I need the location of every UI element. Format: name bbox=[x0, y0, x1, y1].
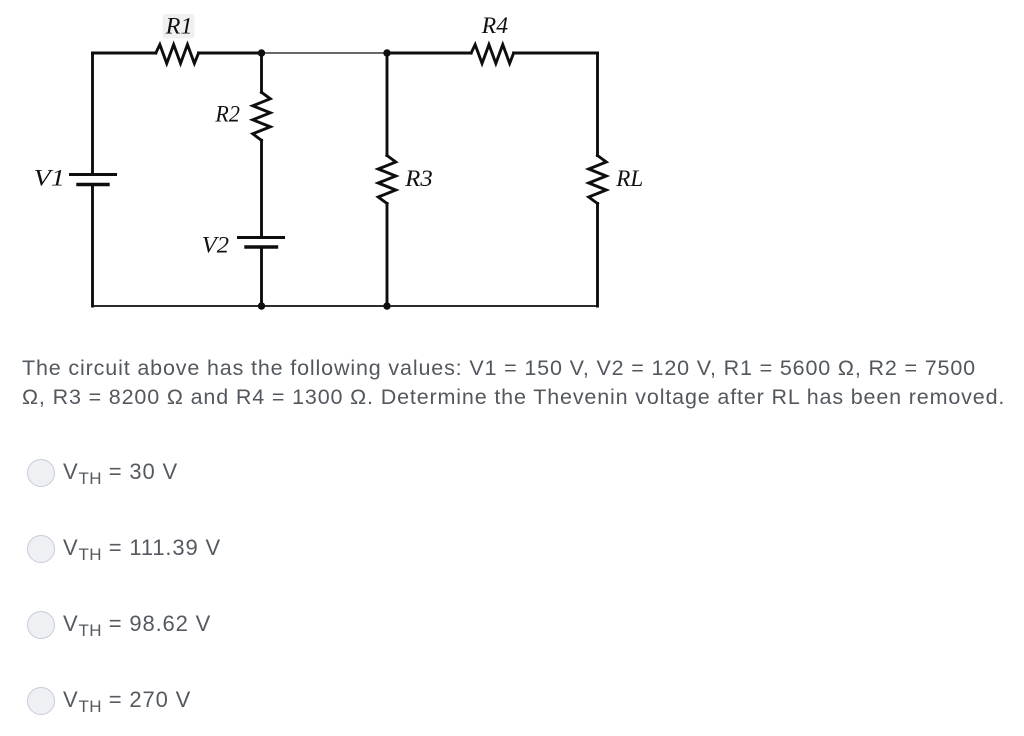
wire R2 to V2 bbox=[260, 140, 263, 236]
wire top-left from V1 rail to R1 bbox=[93, 52, 156, 55]
resistor R1 bbox=[156, 45, 199, 64]
battery V1 short plate bbox=[78, 183, 108, 186]
wire R4 to right rail corner bbox=[514, 52, 598, 55]
svg-text:RL: RL bbox=[615, 166, 643, 192]
wire right rail lower bbox=[596, 204, 599, 307]
wire node B down to R3 bbox=[386, 53, 389, 156]
option 3 bbox=[0, 610, 1, 640]
node B bbox=[383, 49, 390, 56]
svg-text:R2: R2 bbox=[214, 102, 240, 128]
node C bbox=[258, 302, 265, 309]
svg-text:R4: R4 bbox=[481, 13, 508, 39]
circuit schematic bbox=[0, 0, 680, 340]
wire thin node A to node B bbox=[262, 52, 388, 54]
question paragraph bbox=[22, 354, 1005, 412]
battery V2 long plate bbox=[239, 236, 284, 239]
resistor R3 bbox=[378, 156, 396, 204]
option 2 bbox=[0, 534, 1, 564]
resistor R2 bbox=[253, 92, 271, 140]
svg-text:R1: R1 bbox=[165, 14, 193, 40]
wire node A down to R2 bbox=[260, 53, 263, 92]
svg-text:V2: V2 bbox=[202, 233, 229, 259]
resistor R4 bbox=[471, 45, 514, 64]
label R1 highlight box bbox=[163, 14, 195, 39]
node D bbox=[383, 302, 390, 309]
bottom gradient bbox=[0, 680, 1024, 736]
svg-text:R3: R3 bbox=[404, 166, 432, 192]
battery V1 long plate bbox=[71, 173, 116, 176]
wire V2 to bottom node C bbox=[260, 249, 263, 307]
wire left rail lower bbox=[91, 186, 94, 306]
option 4 bbox=[0, 686, 1, 716]
wire R3 to bottom node D bbox=[386, 204, 389, 307]
battery V2 short plate bbox=[246, 245, 277, 248]
resistor RL bbox=[589, 156, 607, 204]
wire right rail upper bbox=[596, 53, 599, 156]
wire bottom bbox=[93, 305, 598, 307]
svg-text:V1: V1 bbox=[34, 166, 65, 192]
option 1 bbox=[0, 458, 1, 488]
wire R1 to node A bbox=[199, 52, 262, 55]
wire node B to R4 bbox=[387, 52, 471, 55]
node A bbox=[258, 49, 265, 56]
wire left rail upper bbox=[91, 53, 94, 173]
